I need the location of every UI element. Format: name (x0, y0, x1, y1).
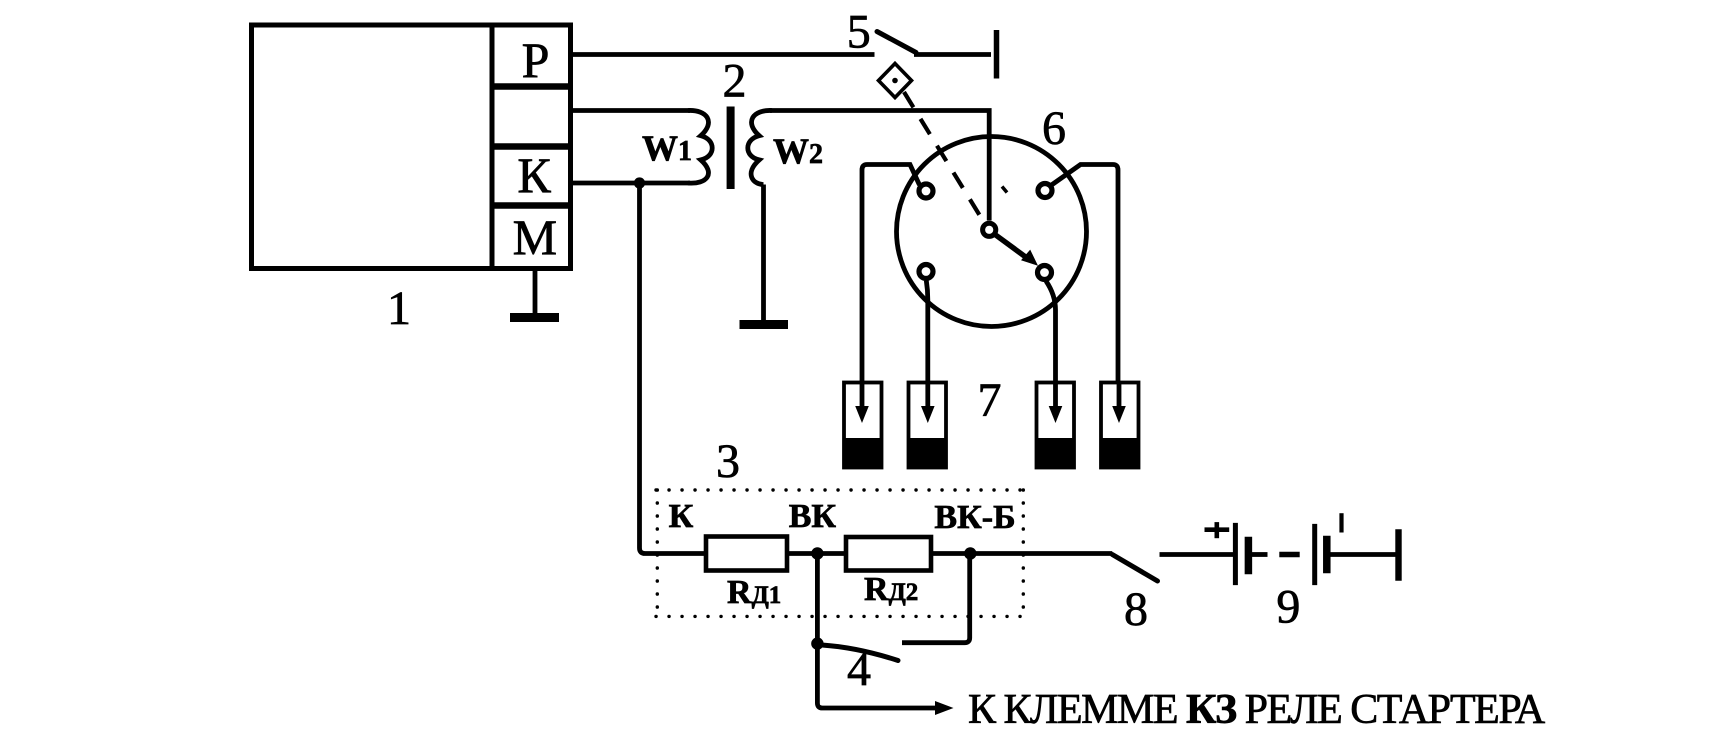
wire P terminal to switch 5 (571, 52, 875, 57)
wire Rd2 to switch 8 (931, 551, 1112, 556)
spark plug 4 arrow (1117, 382, 1122, 408)
wire W2 bottom to ground (761, 185, 766, 322)
svg-text:3: 3 (716, 435, 740, 488)
spark plug 3 lower black part (1037, 438, 1075, 468)
terminal cell divider blank/K (492, 143, 571, 150)
switch 4 arm (822, 645, 898, 661)
svg-text:2: 2 (723, 55, 747, 108)
distributor contact bottom-right (1038, 266, 1052, 280)
wire switch 8 to battery (1160, 552, 1236, 557)
svg-text:К: К (517, 147, 551, 203)
spark plug 4 body (1101, 383, 1139, 468)
rotor arrowhead (1021, 250, 1038, 266)
spark plug 1 body (844, 383, 882, 468)
wire battery to end terminal (1330, 552, 1396, 557)
spark plug 2 lower black part (909, 438, 947, 468)
scan tick inside circle (1002, 187, 1007, 193)
battery cell 2 long plate (1312, 524, 1317, 585)
battery prime tick (1339, 513, 1343, 532)
battery cell 2 short plate (1323, 536, 1331, 574)
wire K terminal to coil W1 bottom (571, 181, 690, 186)
svg-text:ВК-Б: ВК-Б (934, 499, 1015, 536)
svg-text:P: P (522, 32, 550, 88)
resistor R_d2 body (846, 537, 931, 571)
switch 5 arm (877, 32, 916, 53)
wire bottom-right contact to plug 3 (1046, 281, 1056, 382)
wire blank terminal to coil W1 top (571, 108, 690, 113)
switch 5 end terminal bar (994, 30, 1000, 79)
svg-text:ВК: ВК (789, 498, 837, 535)
ground stub under M terminal (533, 269, 538, 315)
diamond contact symbol (879, 64, 912, 98)
spark plug 4 lower black part (1101, 438, 1139, 468)
distributor contact top-right (1038, 184, 1052, 198)
spark plug 2 arrow (925, 382, 930, 408)
svg-text:5: 5 (847, 6, 871, 59)
resistor block 3 dotted outline (656, 490, 1023, 616)
dashed drive link diamond to rotor (904, 92, 985, 224)
node switch 4 junction (811, 637, 823, 649)
node VK-B junction (964, 547, 976, 559)
wire K junction down to resistor block (640, 183, 707, 554)
svg-text:К: К (669, 498, 694, 535)
coil 2 secondary winding W2 (748, 110, 772, 184)
battery stub (1252, 552, 1268, 557)
svg-text:К КЛЕММЕ КЗ РЕЛЕ СТАРТЕРА: К КЛЕММЕ КЗ РЕЛЕ СТАРТЕРА (968, 687, 1546, 733)
switch 8 arm (1112, 555, 1157, 582)
svg-text:8: 8 (1124, 583, 1148, 636)
spark plug 2 body (909, 383, 947, 468)
ground bar for W2 (740, 320, 789, 329)
wire bottom-left contact to plug 2 (926, 281, 928, 383)
svg-text:7: 7 (978, 374, 1002, 427)
ground bar under M (510, 313, 559, 322)
battery middle dash (1279, 552, 1299, 557)
wire top-left contact to plug 1 (862, 165, 920, 383)
wire Rd1 to Rd2 (787, 551, 846, 556)
svg-text:М: М (513, 209, 557, 265)
svg-text:4: 4 (847, 643, 871, 696)
battery cell 1 long plate (1233, 523, 1238, 585)
distributor contact top-left (919, 184, 933, 198)
battery cell 1 short plate (1245, 537, 1253, 575)
resistor R_d1 body (706, 537, 787, 571)
spark plug 1 lower black part (844, 438, 882, 468)
switch 4 fixed contact wire to VK-B (902, 554, 970, 643)
terminal cell divider K/M (492, 202, 571, 209)
diamond center dot (892, 78, 898, 84)
wire to starter relay terminal (arrow) (817, 644, 938, 708)
distributor 6 body circle (897, 137, 1087, 327)
spark plug 3 arrow (1053, 382, 1058, 408)
distributor center electrode (983, 223, 996, 236)
terminal cell divider P/blank (492, 83, 571, 90)
distributor contact bottom-left (919, 265, 933, 279)
unit 1 (transistor commutator) box (252, 25, 571, 269)
node VK junction (811, 547, 823, 559)
svg-text:1: 1 (387, 282, 411, 335)
coil 2 core (727, 107, 735, 190)
wire top-right contact to plug 4 (1052, 165, 1119, 383)
wire VK down to switch 4 (815, 554, 820, 645)
svg-text:9: 9 (1276, 581, 1300, 634)
arrowhead to starter relay (935, 701, 954, 715)
svg-text:6: 6 (1042, 102, 1066, 155)
spark plug 3 body (1037, 383, 1075, 468)
battery end terminal bar (1395, 529, 1401, 581)
rotor arm (995, 235, 1027, 259)
node junction on K wire (634, 177, 645, 188)
battery plus sign (1205, 522, 1230, 538)
wire switch 5 to terminal bar (914, 52, 991, 57)
coil 2 primary winding W1 (688, 110, 712, 183)
wire W2 top to distributor center (770, 111, 989, 221)
spark plug 1 arrow (860, 382, 865, 408)
